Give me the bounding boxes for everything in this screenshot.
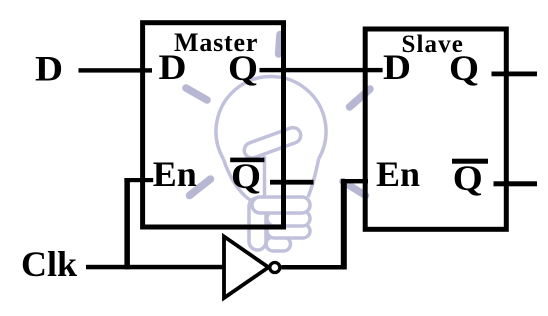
master wire En stub [124,178,153,182]
svg-text:D: D [159,47,187,87]
inverter U3 triangle [224,237,269,299]
slave wire En stub [341,179,368,183]
wire Clk to master En vertical [124,178,129,269]
svg-text:Q: Q [231,156,261,196]
master latch U1 box [143,23,284,227]
slave wire Qbar stub [494,181,538,186]
svg-text:D: D [383,47,411,87]
svg-text:Q: Q [228,48,258,88]
master pin Qbar overline [230,158,264,163]
svg-text:En: En [153,154,197,194]
watermark lightbulb logo [186,35,370,252]
svg-text:Q: Q [449,48,479,88]
svg-text:D: D [35,49,63,89]
slave wire Q output stub [492,72,538,77]
inverter U3 bubble [270,263,280,273]
wire inverter output up to slave En (vertical) [341,179,347,270]
svg-text:Clk: Clk [21,244,77,284]
svg-text:Q: Q [453,158,483,198]
wire bubble to vertical riser [281,265,346,270]
wire master Q to slave D [260,68,383,72]
slave latch U2 box [365,29,506,229]
wire Clk horizontal [86,265,223,270]
svg-text:En: En [376,154,420,194]
wire D input [79,68,153,72]
master wire Qbar stub [270,180,314,185]
slave pin Qbar overline [452,159,488,164]
